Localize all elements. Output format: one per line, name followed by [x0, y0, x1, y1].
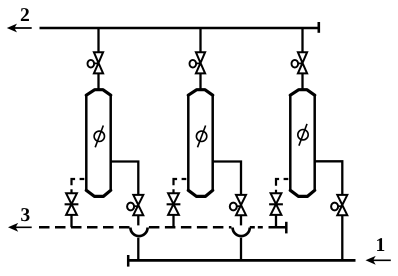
label 1 — [377, 238, 384, 251]
wire: branch header to valve V1 top — [97, 28, 99, 53]
wire: drain valve 3 to drain header — [275, 215, 277, 227]
valve outlet 1 — [127, 195, 143, 215]
wire: crossing to bottom header — [240, 238, 242, 261]
valve outlet 3 — [331, 195, 347, 215]
wire: dashed drain header segment B — [149, 226, 232, 229]
drain header end tick — [285, 222, 288, 234]
wire: vessel 3 outlet to valve — [315, 161, 343, 195]
drain valve 1 — [65, 193, 79, 215]
top header right end tick — [317, 22, 320, 33]
wire: bottom header (stream 1) — [128, 259, 356, 262]
drain valve 2 — [167, 193, 181, 215]
valve top 1 — [88, 52, 104, 73]
wire: top header line (stream 2) — [40, 27, 320, 30]
vessel B2 — [188, 90, 212, 197]
label 2 — [21, 8, 29, 21]
phi symbol vessel 2 — [196, 126, 206, 148]
vessel B1 — [86, 90, 110, 197]
valve top 2 — [190, 52, 206, 73]
phi symbol vessel 3 — [298, 124, 308, 146]
crossing jump arc 2 — [233, 228, 250, 237]
wire: valve to vessel 2 — [199, 73, 201, 90]
label 3 — [21, 208, 29, 221]
wire: valve to vessel 3 — [301, 73, 303, 90]
dashed elbow vessel 1 drain — [72, 179, 85, 194]
valve outlet 2 — [230, 195, 246, 215]
wire: drain header solid end — [269, 226, 287, 229]
wire: drain valve 1 to drain header — [70, 215, 72, 227]
wire: branch header to valve V2 top — [199, 28, 201, 53]
wire: crossing to bottom header — [137, 238, 139, 261]
crossing jump arc 1 — [130, 228, 147, 237]
wire: valve to vessel 1 — [97, 73, 99, 90]
wire: valve down to crossing 2 — [240, 215, 242, 225]
arrow stream 3 — [8, 223, 32, 232]
dashed elbow vessel 2 drain — [174, 179, 187, 194]
dashed elbow vessel 3 drain — [276, 179, 288, 194]
wire: dashed drain header segment C — [250, 226, 263, 229]
wire: vessel 1 outlet to valve — [111, 162, 139, 195]
wire: branch header to valve V3 top — [301, 28, 303, 53]
arrow stream 2 — [7, 24, 32, 33]
phi symbol vessel 1 — [94, 126, 104, 148]
wire: vessel 2 outlet to valve — [213, 162, 241, 195]
wire: valve 3 down to bottom header — [341, 215, 343, 260]
arrow stream 1 — [366, 256, 391, 265]
drain valve 3 — [269, 193, 283, 215]
wire: valve down to crossing 1 — [137, 215, 139, 225]
bottom header left end tick — [127, 255, 130, 267]
vessel B3 — [290, 90, 314, 197]
wire: drain valve 2 to drain header — [172, 215, 174, 227]
wire: dashed drain header segment A (stream 3) — [39, 226, 130, 229]
valve top 3 — [292, 52, 308, 73]
